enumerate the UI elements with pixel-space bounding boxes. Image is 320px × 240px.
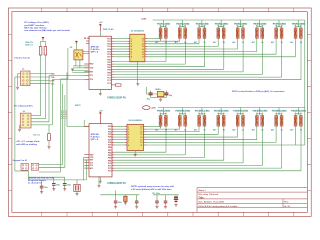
+24V pin marks P11 (198, 112, 205, 114)
svg-text:Rev:: Rev: (284, 202, 289, 204)
ground below U5 (71, 69, 74, 71)
resistor network P8 left element (294, 28, 297, 39)
+24V pin marks P13 (237, 112, 244, 114)
resistor network P16 left element (294, 115, 297, 126)
wire P8 leg stubs (295, 38, 301, 40)
wires U3 to U4 (115, 127, 125, 145)
ground below Y1 (159, 99, 162, 101)
svg-text:XT2: XT2 (90, 165, 93, 167)
LED diode P5 right element (242, 28, 245, 39)
label P16 values (290, 129, 303, 132)
svg-text:PB4: PB4 (108, 157, 112, 160)
relay group P2 label (176, 23, 189, 25)
capacitor at 42 (41, 180, 43, 192)
capacitor C7 (149, 93, 153, 95)
wire P6 leg stubs (257, 38, 263, 40)
J1 left pins to ground (18, 74, 21, 87)
MCU U3 (89, 124, 112, 177)
label P11 values (194, 129, 207, 132)
LED diode P8 right element (299, 28, 302, 39)
resistor network P9 left element (159, 115, 162, 126)
ground below J1 (16, 87, 19, 89)
svg-text:Title:: Title: (198, 196, 204, 199)
wire P9 leg stubs (160, 126, 166, 128)
svg-text:4k7: 4k7 (290, 41, 293, 44)
svg-text:P2 (K2+LED): P2 (K2+LED) (177, 24, 190, 26)
svg-text:P5 (K5+LED): P5 (K5+LED) (234, 24, 247, 26)
svg-text:P1 (K1+LED): P1 (K1+LED) (157, 24, 170, 26)
wire R1 down to J2 row (40, 55, 42, 116)
svg-text:PC3: PC3 (108, 171, 112, 173)
capacitor at 137 (136, 195, 138, 207)
svg-text:4k7: 4k7 (232, 41, 235, 44)
U3 right pin names (108, 126, 112, 173)
wire U5 top (75, 44, 77, 50)
resistor network P5 left element (236, 28, 239, 39)
label P7 values (271, 41, 284, 44)
svg-text:VCC: VCC (51, 84, 56, 86)
svg-text:PD7: PD7 (107, 57, 111, 59)
svg-text:DTR: DTR (51, 81, 56, 83)
svg-text:4k7: 4k7 (271, 41, 274, 44)
svg-text:4: 4 (128, 133, 129, 136)
relay group P13 label (234, 110, 247, 112)
wire P3 leg stubs (199, 38, 205, 40)
resistor network P12 left element (217, 115, 220, 126)
flag oval marker (143, 106, 151, 110)
svg-text:U4 ULN2803A: U4 ULN2803A (129, 119, 143, 122)
resistor network P10 left element (178, 115, 181, 126)
svg-text:Id: 1/1: Id: 1/1 (284, 206, 291, 208)
label R1 R2 values (25, 42, 34, 47)
wire right edge rail link (304, 20, 306, 145)
bus wires U1 ports to top row right legs (114, 41, 301, 80)
svg-text:with LED on trickling: with LED on trickling (16, 143, 37, 146)
svg-text:P4 (K4+LED): P4 (K4+LED) (215, 23, 228, 26)
U2 left pin stubs (127, 39, 130, 57)
wire +24V rail top row (153, 19, 305, 21)
svg-text:P15 (K15+LED): P15 (K15+LED) (272, 111, 287, 113)
svg-text:PB4: PB4 (107, 69, 111, 72)
+24V pin marks P1 (160, 25, 167, 27)
+24V pin marks P5 (237, 25, 244, 27)
resistor R2 (44, 47, 47, 56)
wire P8 supply tie (295, 20, 301, 28)
wire P14 supply tie (257, 108, 263, 116)
wire U4 ground pin (134, 151, 136, 154)
wire U1 bottom pin (99, 89, 101, 93)
capacitor at 54 (53, 177, 55, 189)
U2 pin numbers (131, 38, 144, 58)
resistor network P6 left element (256, 28, 259, 39)
LED diode P16 right element (299, 115, 302, 126)
svg-text:ATMEGA328P-PU: ATMEGA328P-PU (107, 96, 126, 99)
+24V pin marks P14 (256, 112, 263, 114)
svg-text:16MHz: 16MHz (155, 89, 161, 91)
+24V pin marks P8 (295, 25, 302, 27)
J2 right wires (31, 116, 52, 125)
svg-text:P9 (K9+LED): P9 (K9+LED) (157, 111, 170, 113)
+24V pin marks P7 (275, 25, 282, 27)
resistor network P14 left element (256, 115, 259, 126)
wire lower decoupling net A (100, 191, 139, 195)
svg-text:100n: 100n (67, 184, 71, 186)
+24V pin marks P9 (160, 112, 167, 114)
svg-text:Sheet: /: Sheet: / (198, 189, 206, 192)
LED diode P14 right element (261, 115, 264, 126)
relay group P14 label (253, 110, 266, 112)
svg-text:+5V + 12: storage diode: +5V + 12: storage diode (16, 140, 40, 143)
label P5 values (232, 41, 245, 44)
bus wires U3 ports to lower row right legs (115, 128, 301, 171)
+24V pin marks P6 (256, 25, 263, 27)
label P10 values (175, 129, 188, 132)
svg-text:14: 14 (140, 136, 142, 139)
LED diode P10 right element (184, 115, 187, 126)
svg-text:ATMEGA328P-PU: ATMEGA328P-PU (107, 182, 126, 185)
capacitor C10 (124, 195, 126, 203)
svg-text:8: 8 (128, 145, 129, 147)
relay group P6 label (253, 23, 266, 25)
label P1 values (155, 41, 168, 44)
LED diode P13 right element (242, 115, 245, 126)
ground below U2 (136, 84, 139, 86)
wire P5 supply tie (238, 20, 244, 28)
svg-text:10k res: 10k res (33, 134, 41, 136)
LED diode P4 right element (222, 28, 225, 39)
svg-text:P16 (K16+LED): P16 (K16+LED) (291, 111, 306, 113)
jumper wires to risers (39, 72, 89, 172)
relay group P15 label (273, 110, 286, 112)
svg-text:15: 15 (140, 134, 142, 136)
svg-text:XT2: XT2 (90, 79, 93, 81)
svg-text:4k7: 4k7 (155, 129, 158, 132)
svg-text:P6 (K6+LED): P6 (K6+LED) (254, 24, 267, 26)
resistor network P15 left element (275, 115, 278, 126)
driver IC U4 ULN2803A (127, 124, 144, 150)
wire P15 leg stubs (276, 126, 282, 128)
wire P4 supply tie (218, 20, 224, 28)
capacitor C8 (164, 93, 168, 95)
note: optional sub relay (28, 177, 55, 185)
svg-text:PD4: PD4 (107, 48, 111, 51)
label P13 values (232, 129, 245, 132)
wire P5 leg stubs (238, 38, 244, 40)
wire P16 leg stubs (295, 126, 301, 128)
label P2 values (175, 41, 188, 44)
svg-text:1206 res: 1206 res (25, 45, 34, 47)
optocoupler U5 (74, 50, 83, 60)
wire P6 supply tie (257, 20, 263, 28)
vertical wire mid column (67, 48, 69, 79)
wire P2 supply tie (180, 20, 186, 28)
svg-text:PD2: PD2 (107, 44, 111, 46)
svg-text:RX/TX: RX/TX (75, 105, 81, 107)
U1 right pin stubs (112, 39, 116, 85)
label P4 values (213, 41, 226, 44)
svg-text:TXD: TXD (51, 77, 55, 79)
J1 right pin wires (30, 74, 50, 84)
relay group P10 label (176, 110, 189, 112)
svg-text:7: 7 (128, 142, 129, 144)
driver IC U2 ULN2803A (130, 34, 145, 62)
svg-text:KiCad E.D.A. kicad-product-4.: KiCad E.D.A. kicad-product-4.0.1-stable (198, 205, 238, 208)
svg-text:PC3: PC3 (107, 83, 111, 85)
svg-text:Size: A4 Date: 17 jan 201: Size: A4 Date: 17 jan 2016 (198, 201, 224, 204)
+24V pin marks P16 (295, 112, 302, 114)
+24V pin marks P10 (179, 112, 186, 114)
note: storage diode (16, 140, 40, 146)
+12V flag above U5 (75, 41, 77, 44)
LED diode P9 right element (164, 115, 167, 126)
wire P15 supply tie (276, 108, 282, 116)
resistor R4 on U1 pin (116, 84, 122, 86)
relay group P11 label (196, 110, 209, 112)
LED diode P1 right element (164, 28, 167, 39)
connector J1 (21, 71, 30, 86)
svg-text:11: 11 (141, 145, 143, 147)
wire R3 bottom (48, 141, 50, 147)
svg-text:100n: 100n (44, 187, 48, 189)
wire P13 supply tie (238, 108, 244, 116)
ground below U1 (99, 94, 102, 96)
relay group P4 label (215, 23, 228, 25)
jumper JP1 (21, 163, 28, 170)
svg-text:if 5V wired (ribbon) 24V to ad: if 5V wired (ribbon) 24V to add 100u bas… (131, 188, 172, 191)
wire P1 leg stubs (160, 38, 166, 40)
jumper JP2 (31, 163, 38, 170)
wire P13 leg stubs (238, 126, 244, 128)
resistor network P7 left element (275, 28, 278, 39)
wire P2 leg stubs (180, 38, 186, 40)
resistor R3 relay coil (48, 134, 51, 141)
J2 left pin ground (19, 125, 21, 129)
svg-text:17: 17 (140, 129, 142, 131)
svg-text:14: 14 (142, 48, 144, 51)
U3 left pin names (90, 154, 94, 170)
svg-text:12: 12 (140, 142, 142, 144)
svg-text:4k7: 4k7 (213, 129, 216, 132)
svg-text:C11 100n: C11 100n (152, 193, 160, 195)
relay group P12 label (215, 110, 228, 112)
wire P3 supply tie (199, 20, 205, 28)
bus wires U4 outputs to lower row left legs (146, 127, 305, 145)
svg-text:PD2: PD2 (108, 131, 112, 133)
wire P12 leg stubs (218, 126, 224, 128)
U1 value text (91, 46, 101, 54)
svg-text:PWR_FLAG: PWR_FLAG (103, 28, 114, 31)
svg-text:DC relay (out) 5V+: DC relay (out) 5V+ (14, 105, 34, 108)
wire lower decoupling net B (153, 194, 179, 196)
U1 right pin names (107, 38, 111, 85)
label P6 values (252, 41, 265, 44)
wire P10 supply tie (180, 108, 186, 116)
svg-text:4k7: 4k7 (232, 129, 235, 132)
svg-text:P11 (K11+LED): P11 (K11+LED) (195, 111, 210, 113)
label P8 values (290, 41, 303, 44)
svg-text:4k7: 4k7 (175, 129, 178, 132)
svg-text:100n: 100n (56, 184, 60, 186)
svg-text:RJ11 #x wired further to RJ9 p: RJ11 #x wired further to RJ9 pin (A/C), … (232, 90, 285, 93)
svg-text:QFP x 8: QFP x 8 (91, 139, 99, 141)
svg-text:XT1: XT1 (90, 75, 93, 77)
svg-text:4k7: 4k7 (194, 41, 197, 44)
capacitor at 166 (165, 195, 167, 207)
wire P9 supply tie (160, 108, 166, 116)
wire U1 top pin (99, 31, 101, 36)
svg-text:P10 (K10+LED): P10 (K10+LED) (175, 111, 190, 113)
relay group P9 label (157, 110, 170, 112)
MCU U1 (89, 36, 112, 89)
resistor R1 (39, 47, 42, 56)
wire R2 down to J2 row (44, 55, 46, 119)
+24V pin marks P3 (198, 25, 205, 27)
relay group P16 label (292, 110, 305, 112)
svg-text:two shared fuse (8A) diode per: two shared fuse (8A) diode per coil term… (24, 29, 70, 32)
svg-text:4k7: 4k7 (213, 41, 216, 44)
wire J1 left rail down to jumpers (14, 77, 16, 171)
label P12 values (213, 129, 226, 132)
U3 value text (91, 133, 101, 141)
svg-text:4k7: 4k7 (252, 41, 255, 44)
svg-text:QFP x 8: QFP x 8 (91, 52, 99, 54)
polarized capacitor C4 (76, 180, 78, 194)
resistor network P4 left element (217, 28, 220, 39)
J1 net labels (51, 74, 56, 86)
resistor network P13 left element (236, 115, 239, 126)
note: pump inverter (131, 185, 174, 191)
polarized capacitor C12 (175, 195, 177, 205)
U2 right pin stubs (145, 39, 148, 57)
wire crystal net (147, 87, 169, 99)
svg-text:2: 2 (128, 129, 129, 131)
+24V power flag for input divider (42, 37, 44, 40)
relay group P8 label (292, 23, 305, 25)
U5 bottom wires (72, 60, 89, 73)
U4 pin numbers (128, 126, 142, 147)
vertical net labels (62, 111, 66, 120)
svg-text:R8 10k: R8 10k (84, 38, 90, 40)
sheet inner border frame (12, 12, 307, 213)
wire P14 leg stubs (257, 126, 263, 128)
svg-text:4k7: 4k7 (252, 129, 255, 132)
svg-text:PD7: PD7 (108, 145, 112, 147)
wire P7 leg stubs (276, 38, 282, 40)
svg-text:P14 (K14+LED): P14 (K14+LED) (252, 110, 267, 113)
wires U3 left pins (84, 120, 87, 180)
svg-text:4k7: 4k7 (155, 41, 158, 44)
LED diode P7 right element (280, 28, 283, 39)
svg-text:P7 (K7+LED): P7 (K7+LED) (273, 24, 286, 26)
LED diode P12 right element (222, 115, 225, 126)
crystal Y1 (157, 91, 164, 96)
wire supply rails left bottom (21, 171, 86, 180)
+24V pin marks P4 (217, 25, 224, 27)
capacitor at 157 (156, 195, 158, 207)
bus wires U2 outputs to top row left legs (147, 39, 295, 57)
title block (197, 188, 307, 213)
note: top-left description text (24, 21, 70, 32)
resistor network P2 left element (178, 28, 181, 39)
ground stub right of C4 (98, 176, 100, 185)
LED diode P6 right element (261, 28, 264, 39)
capacitor at 116 (115, 195, 117, 207)
svg-text:8: 8 (131, 57, 132, 59)
svg-text:PD4: PD4 (108, 136, 112, 139)
U5 right wires to MCU1 (83, 51, 89, 53)
svg-text:4k7: 4k7 (290, 129, 293, 132)
wire P1 supply tie (160, 20, 166, 28)
svg-text:P13 (K13+LED): P13 (K13+LED) (233, 111, 248, 113)
ground below R3 (48, 147, 51, 149)
svg-text:11: 11 (142, 57, 144, 59)
wire U3 bottom pin (99, 177, 101, 181)
resistor network P3 left element (198, 28, 201, 39)
svg-text:P3 (K3+LED): P3 (K3+LED) (196, 24, 209, 26)
U4 right pin stubs (144, 127, 147, 145)
svg-text:4k7: 4k7 (194, 129, 197, 132)
LED diode P3 right element (203, 28, 206, 39)
U4 left pin stubs (125, 127, 128, 145)
label P9 values (155, 129, 168, 132)
+24V pin marks P15 (275, 112, 282, 114)
wire P12 supply tie (218, 108, 224, 116)
wire P11 leg stubs (199, 126, 205, 128)
svg-text:NOTE: optional pump inverter f: NOTE: optional pump inverter for relay a… (131, 185, 174, 188)
svg-text:DC voltage x2 inv (24V): DC voltage x2 inv (24V) (24, 21, 48, 24)
U3 left pin stubs (84, 127, 89, 169)
svg-text:U2 ULN2803A: U2 ULN2803A (131, 30, 145, 33)
relay group P1 label (157, 23, 170, 25)
svg-text:4: 4 (131, 45, 132, 48)
LED diode P2 right element (184, 28, 187, 39)
wire P10 leg stubs (180, 126, 186, 128)
relay group P3 label (196, 23, 209, 25)
LED diode P15 right element (280, 115, 283, 126)
wire R3 top (48, 125, 50, 134)
wire P11 supply tie (199, 108, 205, 116)
ground below U3 (99, 181, 102, 183)
wires U1 to U2 (114, 39, 127, 57)
U1 left pin stubs (84, 41, 89, 80)
+24V pin marks P2 (179, 25, 186, 27)
U1 left pin names (90, 64, 94, 81)
wire +24V rail lower row (158, 107, 305, 109)
wire P7 supply tie (276, 20, 282, 28)
svg-text:+24V: +24V (141, 17, 147, 20)
connector J2 (20, 113, 31, 128)
wire U2 ground pin (136, 62, 138, 83)
wires from MCU1 left pins down to J2 (49, 76, 84, 125)
+24V pin marks P12 (217, 112, 224, 114)
relay group P5 label (234, 23, 247, 25)
svg-text:4k7: 4k7 (271, 129, 274, 132)
svg-text:as shorted link: as shorted link (28, 182, 43, 185)
wire +24V flag tie (41, 40, 46, 46)
ground below U4 (134, 154, 137, 156)
LED diode P11 right element (203, 115, 206, 126)
svg-text:100n: 100n (118, 202, 122, 204)
wire P4 leg stubs (218, 38, 224, 40)
svg-text:P12 (K12+LED): P12 (K12+LED) (214, 111, 229, 113)
label P14 values (252, 129, 265, 132)
capacitor at 65 (64, 177, 66, 189)
title block text (198, 189, 291, 208)
svg-text:+24V: +24V (151, 107, 156, 110)
label P15 values (271, 129, 284, 132)
resistor network P1 left element (159, 28, 162, 39)
resistor network P11 left element (198, 115, 201, 126)
